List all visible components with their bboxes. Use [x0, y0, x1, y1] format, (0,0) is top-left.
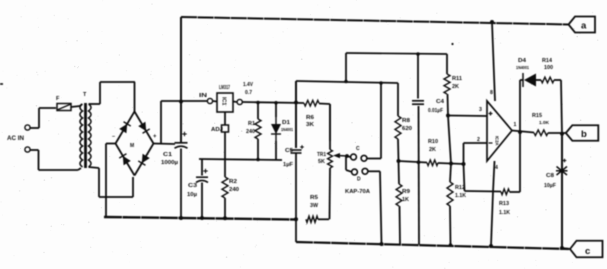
svg-text:R10: R10 — [428, 139, 438, 145]
svg-text:b: b — [581, 129, 587, 140]
svg-text:a: a — [581, 21, 587, 32]
svg-text:C8: C8 — [546, 173, 554, 179]
svg-text:1N4001: 1N4001 — [281, 127, 293, 132]
svg-text:2: 2 — [477, 137, 480, 143]
svg-text:TR1: TR1 — [317, 152, 326, 158]
svg-text:240: 240 — [246, 129, 255, 135]
svg-text:IC2A: IC2A — [495, 136, 500, 146]
svg-text:–: – — [112, 134, 115, 140]
svg-text:620: 620 — [402, 126, 412, 132]
svg-text:R6: R6 — [306, 115, 314, 121]
svg-text:C1: C1 — [163, 152, 172, 158]
svg-text:4: 4 — [495, 165, 498, 171]
svg-text:3: 3 — [479, 107, 482, 113]
svg-text:R11: R11 — [452, 76, 462, 82]
svg-text:R15: R15 — [532, 113, 542, 119]
svg-text:KAP-70A: KAP-70A — [345, 189, 370, 195]
svg-text:10µ: 10µ — [187, 192, 197, 198]
svg-text:1µF: 1µF — [283, 162, 294, 168]
svg-text:C5: C5 — [285, 148, 293, 154]
svg-text:c: c — [585, 246, 590, 257]
svg-text:D4: D4 — [518, 58, 526, 64]
svg-text:+: + — [153, 134, 157, 140]
svg-text:1: 1 — [514, 122, 517, 128]
svg-text:2K: 2K — [452, 84, 459, 90]
svg-text:1N4001: 1N4001 — [516, 65, 529, 70]
svg-text:R2: R2 — [229, 179, 237, 185]
svg-text:0.01µF: 0.01µF — [428, 108, 444, 114]
svg-text:8: 8 — [490, 90, 493, 96]
svg-text:ADJ: ADJ — [211, 127, 223, 133]
svg-text:IN: IN — [199, 93, 207, 99]
svg-text:10µF: 10µF — [544, 183, 557, 189]
svg-text:IC1: IC1 — [221, 97, 227, 105]
svg-text:R13: R13 — [499, 201, 509, 207]
svg-text:C3: C3 — [188, 183, 197, 189]
svg-text:3W: 3W — [310, 203, 318, 209]
svg-text:1.4V: 1.4V — [243, 82, 253, 88]
svg-text:240: 240 — [229, 187, 239, 193]
svg-text:D: D — [357, 177, 361, 183]
svg-text:C4: C4 — [436, 99, 444, 105]
svg-text:R14: R14 — [542, 58, 552, 64]
svg-text:1.1K: 1.1K — [455, 193, 466, 199]
svg-text:1K: 1K — [402, 197, 409, 203]
svg-text:D1: D1 — [282, 120, 290, 126]
svg-text:100: 100 — [544, 65, 553, 71]
svg-text:0.7: 0.7 — [245, 90, 252, 96]
svg-text:R8: R8 — [402, 118, 410, 124]
svg-text:M: M — [130, 143, 134, 149]
svg-text:AC IN: AC IN — [7, 135, 25, 142]
svg-text:1.1K: 1.1K — [499, 210, 510, 216]
svg-text:R1: R1 — [248, 121, 255, 127]
svg-text:LM317: LM317 — [219, 85, 230, 91]
svg-text:1.0K: 1.0K — [539, 120, 550, 125]
svg-text:2K: 2K — [429, 147, 436, 153]
svg-text:5K: 5K — [318, 159, 325, 165]
svg-text:R5: R5 — [310, 195, 318, 201]
svg-text:C: C — [356, 146, 360, 152]
svg-text:R9: R9 — [402, 189, 410, 195]
svg-text:3K: 3K — [306, 122, 314, 128]
svg-text:1000µ: 1000µ — [161, 160, 178, 166]
